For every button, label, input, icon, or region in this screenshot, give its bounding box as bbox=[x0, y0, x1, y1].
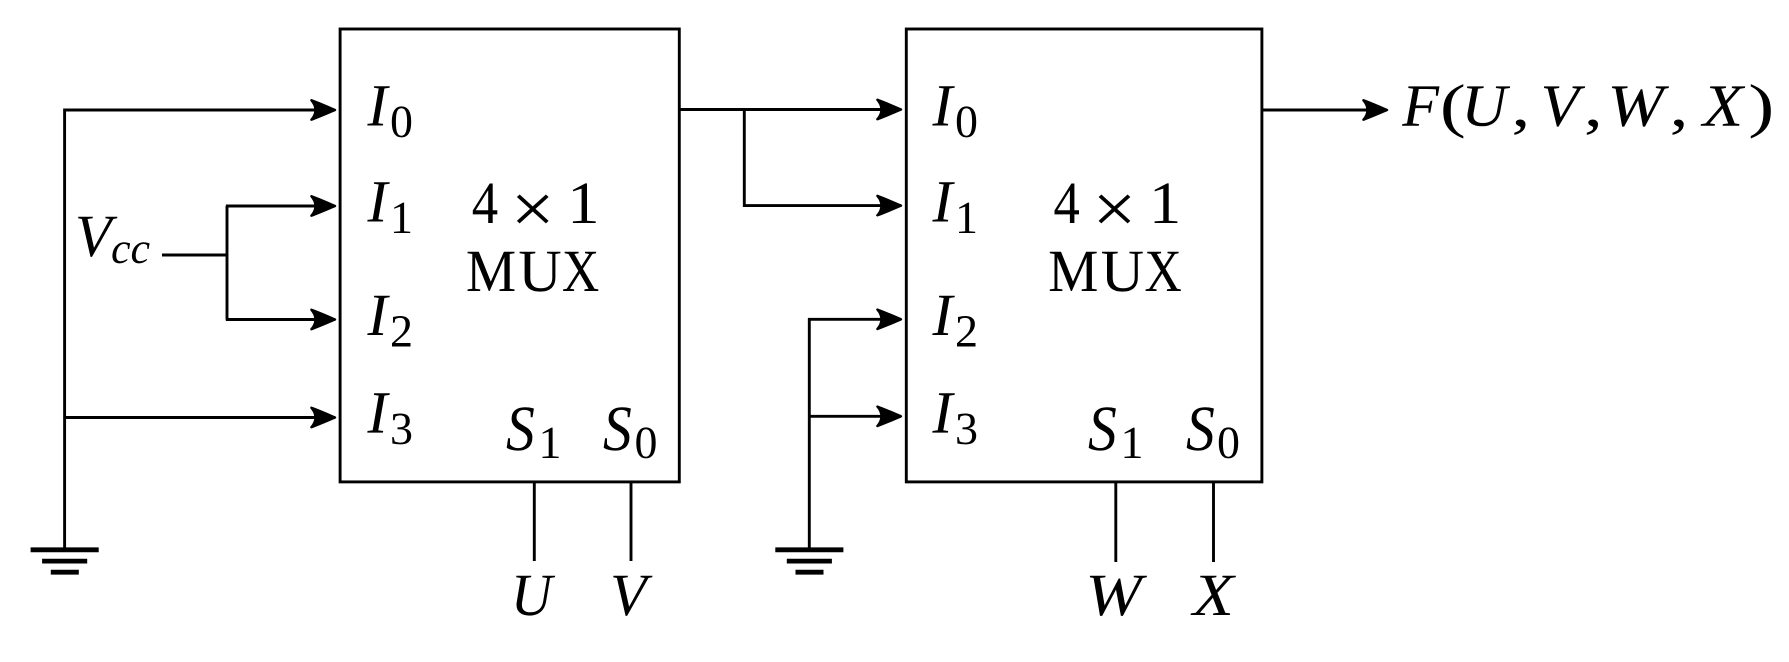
pin label U1 S1 bbox=[507, 407, 534, 450]
net label W bbox=[1090, 576, 1147, 616]
net label U bbox=[516, 576, 555, 616]
label U2 MUX bbox=[1050, 252, 1181, 292]
wire into U1 I1 bbox=[226, 205, 335, 208]
wire into U2 I3 bbox=[808, 415, 901, 418]
net label X bbox=[1191, 576, 1237, 615]
label U2 4x1 bbox=[1055, 183, 1178, 223]
wire U1 output to U2 I0 bbox=[679, 108, 901, 111]
wire right bus vertical (I2 to ground) bbox=[808, 318, 811, 548]
pin label U2 I2 bbox=[932, 296, 955, 335]
pin label U1 I1 bbox=[367, 182, 390, 221]
mux U1 box bbox=[340, 29, 679, 482]
pin label U1 S0 bbox=[604, 407, 631, 450]
net label F(U, V, W, X) bbox=[1402, 84, 1771, 138]
ground (right) bbox=[775, 550, 843, 572]
pin label U2 I3 bbox=[932, 393, 955, 432]
pin label U2 S0 bbox=[1187, 407, 1214, 450]
wire into U1 I2 bbox=[226, 318, 335, 321]
pin label U1 I2 bbox=[367, 296, 390, 335]
wire into U1 I3 bbox=[63, 416, 335, 419]
mux U2 box bbox=[906, 29, 1262, 482]
ground (left) bbox=[31, 550, 99, 572]
net label Vcc bbox=[78, 217, 117, 257]
wire Vcc branch vertical bbox=[226, 206, 229, 320]
wire branch from U1 output into U2 I1 bbox=[744, 110, 901, 206]
wire left bus vertical and into U1 I0 bbox=[65, 110, 335, 548]
pin label U1 I0 bbox=[367, 86, 390, 125]
label U1 4x1 bbox=[473, 183, 596, 223]
wire U1 S0 pin bbox=[630, 482, 633, 561]
wire into U2 I2 bbox=[808, 318, 901, 321]
wire U2 output bbox=[1262, 109, 1387, 112]
net label V bbox=[613, 576, 652, 616]
pin label U2 I0 bbox=[932, 86, 955, 125]
pin label U2 I1 bbox=[932, 182, 955, 221]
label U1 MUX bbox=[468, 252, 599, 292]
wire U2 S1 pin bbox=[1114, 482, 1117, 562]
pin label U2 S1 bbox=[1089, 407, 1116, 450]
wire Vcc lead bbox=[162, 254, 227, 257]
wire U1 S1 pin bbox=[533, 482, 536, 561]
pin label U1 I3 bbox=[367, 393, 390, 432]
wire U2 S0 pin bbox=[1212, 482, 1215, 562]
